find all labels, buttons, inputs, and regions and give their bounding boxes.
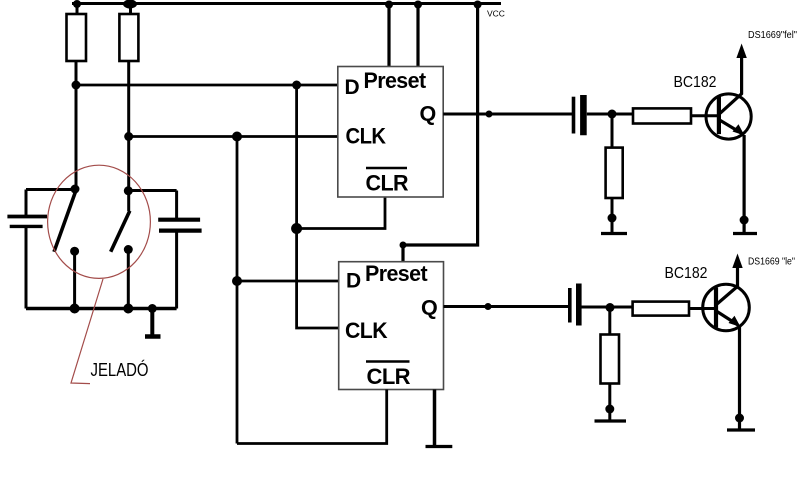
overline CLR (U2) — [366, 360, 410, 363]
svg-text:BC182: BC182 — [674, 74, 717, 91]
svg-text:CLR: CLR — [366, 171, 409, 196]
wire C1 top lead — [25, 190, 28, 217]
svg-text:BC182: BC182 — [665, 265, 708, 282]
node dot CLK1/feedback junction — [232, 132, 242, 142]
node dot Q2 output — [485, 303, 492, 310]
node dot vcc drop — [474, 1, 482, 9]
node dot D1/CLK2 junction — [292, 81, 301, 90]
node dot Q1 output — [486, 111, 493, 118]
node dot R2 top — [123, 0, 137, 9]
wire R4 bottom — [611, 198, 614, 234]
wire Q2 output — [444, 305, 571, 308]
resistor R4 — [606, 148, 623, 198]
svg-text:Q: Q — [421, 296, 437, 320]
wire R2 down to switch S2 — [127, 61, 130, 211]
wire CLR2 return — [237, 390, 387, 444]
VCC top rail — [72, 2, 501, 5]
capacitor C2 bottom plate — [159, 229, 202, 233]
svg-text:CLK: CLK — [346, 124, 387, 149]
node dot CLR1 return junction — [291, 223, 302, 234]
capacitor C2 top plate — [158, 218, 200, 222]
wire R2 top stub — [129, 4, 132, 14]
node dot switch S2 pivot — [124, 186, 133, 195]
wire Q1 emitter down — [742, 135, 745, 234]
annotation circle JELADO — [48, 165, 151, 278]
node dot preset stub 2 — [414, 1, 422, 9]
wire D input FF2 — [237, 280, 339, 283]
node dot Q2 emitter ground — [735, 414, 744, 423]
node dot C4/R5 junction — [606, 303, 615, 312]
wire C4 to R5 junction — [582, 306, 633, 309]
svg-text:CLK: CLK — [345, 318, 388, 343]
wire C2 top lead — [175, 191, 178, 219]
capacitor C3 left plate — [572, 97, 576, 134]
node dot C3/R4 junction — [608, 110, 617, 119]
wire D input FF1 — [76, 84, 338, 87]
resistor R3 base — [633, 108, 691, 123]
arrow DS1669 fel — [736, 44, 746, 59]
node dot Q1 emitter ground — [740, 216, 749, 225]
wire R1 down to switch S1 — [75, 61, 78, 190]
flip-flop U1 box — [338, 67, 443, 198]
node dot rail S2 — [123, 304, 133, 314]
wire S1 pivot to C1 — [26, 188, 75, 191]
resistor R1 — [67, 14, 87, 61]
capacitor C1 top plate — [7, 215, 47, 219]
wire S2 pivot to C2 — [128, 189, 176, 192]
wire C2 bottom lead — [175, 231, 178, 309]
svg-text:DS1669 "le": DS1669 "le" — [748, 257, 795, 268]
wire Q2 emitter down — [738, 327, 741, 431]
capacitor C4 right plate — [576, 284, 582, 326]
capacitor C4 left plate — [568, 288, 572, 323]
ground Q1 emitter — [733, 232, 757, 235]
node dot switch S2 contact — [124, 245, 133, 254]
wire C1 bottom lead — [25, 227, 28, 309]
node dot D2 junction — [232, 276, 242, 286]
wire R5 bottom — [608, 384, 611, 422]
wire R6 to Q2 base — [689, 307, 714, 310]
svg-text:D: D — [346, 270, 361, 293]
svg-text:DS1669"fel": DS1669"fel" — [748, 30, 797, 41]
capacitor C1 bottom plate — [10, 225, 43, 228]
resistor R2 — [119, 14, 138, 61]
wire Q2 collector up — [736, 266, 739, 286]
wire ground stub left — [150, 309, 154, 337]
ground Q2 emitter — [727, 428, 755, 431]
switch S1 blade — [54, 192, 76, 252]
svg-text:Preset: Preset — [365, 261, 428, 286]
node dot switch S1 pivot — [71, 185, 80, 194]
wire R5 top — [608, 307, 611, 335]
ground R4 — [601, 232, 627, 235]
annotation leader line — [71, 279, 103, 384]
node dot D1 junction — [72, 81, 81, 90]
ground R5 — [595, 419, 627, 422]
wire R1 top stub — [76, 4, 79, 14]
flip-flop U2 box — [339, 262, 444, 390]
node dot R4 ground — [608, 214, 617, 223]
transistor Q2 BC182 — [703, 284, 750, 331]
wire feedback vertical from CLK1 to CLR2 return — [236, 137, 239, 444]
wire preset stub 2 into FF1 — [416, 4, 419, 67]
wire S1 contact down — [73, 251, 76, 308]
node dot CLK1 junction — [124, 132, 133, 141]
wire Q1 output — [443, 113, 572, 116]
svg-text:JELADÓ: JELADÓ — [91, 359, 149, 380]
node dot R1 top — [73, 0, 81, 8]
svg-text:CLR: CLR — [367, 364, 411, 389]
svg-text:VCC: VCC — [487, 9, 505, 19]
ground left — [145, 334, 161, 339]
wire preset stub 1 into FF1 — [387, 4, 390, 67]
node dot rail ground — [148, 304, 157, 313]
wire FF2 ground stub — [433, 390, 437, 447]
node dot preset stub 1 — [385, 1, 393, 9]
wire vertical D1 to CLK2 — [297, 85, 339, 328]
capacitor C3 right plate — [580, 95, 587, 135]
wire bottom rail — [26, 307, 177, 310]
wire CLR1 return — [297, 197, 385, 229]
ground FF2 — [426, 445, 453, 448]
switch S2 blade — [111, 211, 130, 252]
node dot FF2 preset corner — [400, 242, 407, 249]
wire R3 to Q1 base — [691, 114, 717, 117]
wire C3 to R4 junction — [587, 113, 633, 116]
wire Q1 collector up — [740, 56, 743, 94]
node dot R5 ground — [605, 405, 614, 414]
overline CLR (U1) — [366, 167, 407, 170]
svg-text:D: D — [345, 76, 360, 99]
wire S2 contact down — [127, 250, 130, 309]
svg-text:Q: Q — [420, 101, 436, 125]
svg-text:Preset: Preset — [364, 68, 427, 93]
transistor Q1 BC182 — [706, 93, 751, 139]
wire VCC drop to FF2 preset — [403, 4, 478, 262]
wire R4 top — [611, 114, 614, 148]
arrow DS1669 le — [732, 254, 742, 269]
wire CLK input FF1 — [129, 135, 338, 138]
node dot rail S1 — [70, 304, 80, 314]
resistor R5 — [601, 335, 620, 384]
resistor R6 base — [633, 302, 689, 316]
node dot switch S1 contact — [70, 247, 79, 256]
